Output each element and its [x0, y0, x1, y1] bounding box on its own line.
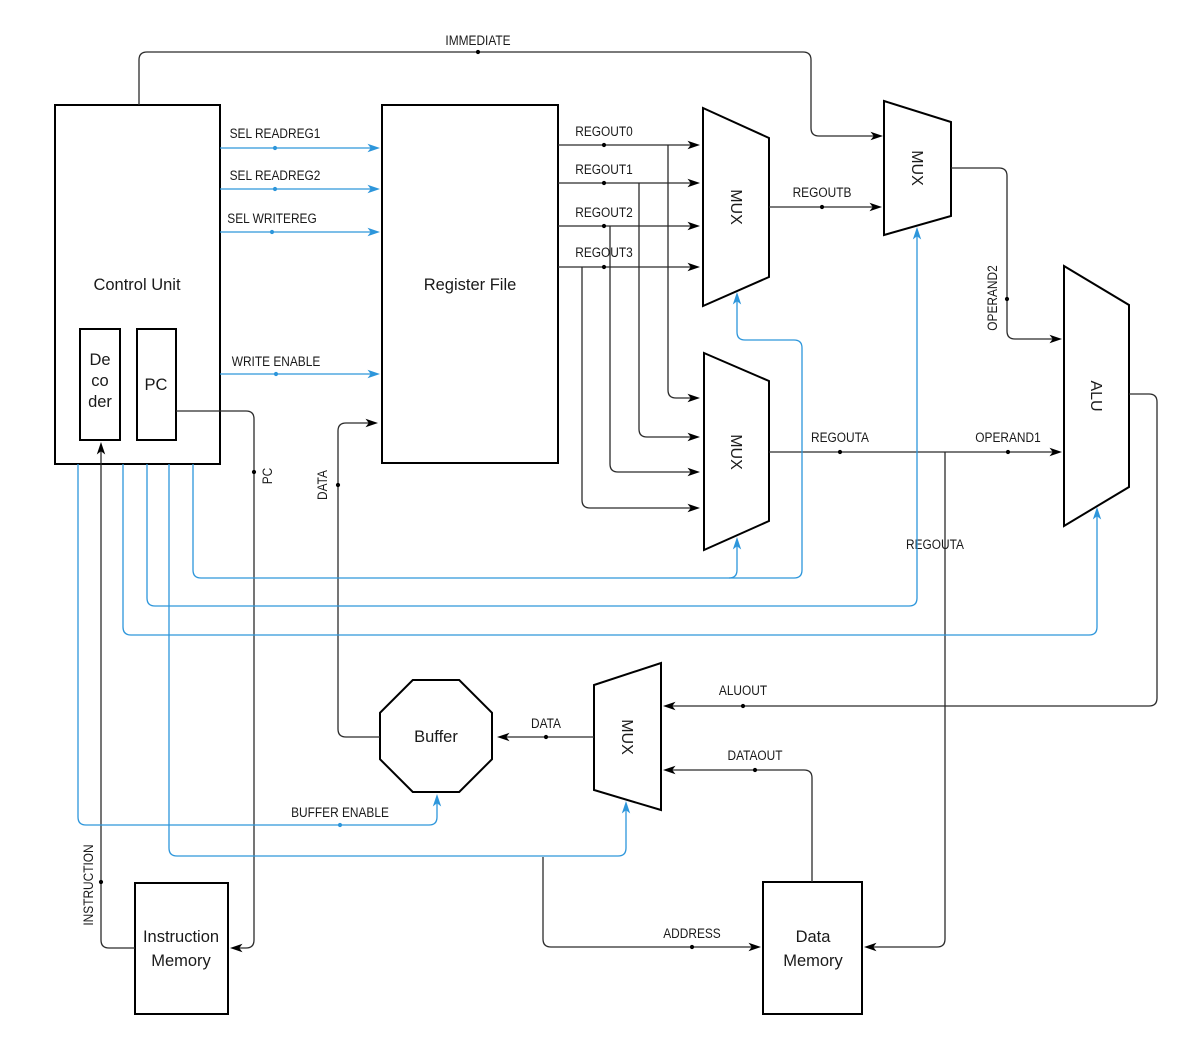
label IMMEDIATE — [445, 32, 510, 54]
wire DATA: buffer to register file write port — [338, 419, 380, 737]
svg-text:Data: Data — [796, 928, 832, 946]
decoder — [80, 329, 120, 440]
mux M4 (writeback select, mirrored) — [594, 663, 661, 810]
wire mux M2 select (blue): control unit to mux M2 — [147, 227, 921, 606]
wire DATA: mux M4 output to buffer — [497, 733, 594, 741]
register file — [382, 105, 558, 463]
svg-text:Buffer: Buffer — [414, 728, 458, 746]
svg-text:ALU: ALU — [1087, 380, 1104, 411]
svg-text:MUX: MUX — [727, 434, 744, 470]
label INSTRUCTION — [80, 844, 103, 925]
wire PC: PC register to instruction memory — [176, 411, 254, 952]
ALU — [1064, 266, 1129, 526]
svg-text:REGOUTA: REGOUTA — [811, 429, 869, 445]
svg-text:REGOUTA: REGOUTA — [906, 536, 964, 552]
wire REGOUT0: register file to mux M1 input 1 — [558, 141, 700, 149]
wire REGOUT3 branch to mux M3 input 4 — [582, 267, 700, 512]
svg-text:co: co — [91, 372, 108, 390]
wire REGOUTB: mux M1 output to mux M2 input 2 — [769, 203, 882, 211]
svg-text:REGOUT0: REGOUT0 — [575, 123, 633, 139]
label REGOUTA (lower) — [906, 536, 964, 552]
wire mux M1/M3 select (blue): control unit to mux M1 and mux M3 — [193, 292, 802, 578]
wire SEL WRITEREG (blue) — [220, 228, 380, 236]
buffer (octagon) — [380, 680, 492, 792]
label ADDRESS — [663, 925, 721, 949]
label OPERAND2 — [984, 265, 1009, 330]
wire REGOUT3: register file to mux M1 input 4 — [558, 263, 700, 271]
svg-text:der: der — [88, 393, 112, 411]
svg-text:DATA: DATA — [531, 715, 561, 731]
label BUFFER ENABLE — [291, 804, 389, 827]
label REGOUT1 — [575, 161, 633, 185]
svg-text:ALUOUT: ALUOUT — [719, 682, 767, 698]
wire DATAOUT: data memory to mux M4 input 2 — [663, 766, 812, 882]
svg-text:BUFFER ENABLE: BUFFER ENABLE — [291, 804, 389, 820]
wire REGOUT2 branch to mux M3 input 3 — [610, 226, 700, 476]
label REGOUTB — [793, 184, 852, 209]
svg-text:OPERAND2: OPERAND2 — [984, 265, 1000, 330]
svg-text:WRITE ENABLE: WRITE ENABLE — [232, 353, 321, 369]
svg-text:MUX: MUX — [618, 719, 635, 755]
label SEL READREG1 — [230, 125, 321, 150]
svg-text:IMMEDIATE: IMMEDIATE — [445, 32, 510, 48]
svg-text:MUX: MUX — [727, 189, 744, 225]
svg-text:DATAOUT: DATAOUT — [727, 747, 782, 763]
label REGOUT2 — [575, 204, 633, 228]
svg-text:Memory: Memory — [783, 952, 843, 970]
wire mux M4 select (blue): control unit to mux M4 — [169, 464, 630, 856]
wire REGOUTA branch to data memory data input — [864, 452, 945, 951]
svg-text:MUX: MUX — [908, 150, 925, 186]
wire ADDRESS: to data memory address input — [543, 857, 761, 951]
wire REGOUT2: register file to mux M1 input 3 — [558, 222, 700, 230]
label REGOUT0 — [575, 123, 633, 147]
label DATA (mux to buffer) — [531, 715, 561, 739]
wire ALUOUT: ALU output to mux M4 input 1 — [663, 394, 1157, 710]
wire mux M3 select branch (blue) — [729, 537, 741, 578]
svg-text:Instruction: Instruction — [143, 928, 219, 946]
svg-text:Control Unit: Control Unit — [93, 276, 181, 294]
mux M1 (regoutB select) — [703, 108, 769, 306]
wire IMMEDIATE: control unit top to mux M2 input 1 — [139, 52, 883, 140]
label DATA (buffer to register file) — [314, 470, 340, 500]
wire ALU select (blue): control unit to ALU — [123, 464, 1101, 635]
svg-text:SEL WRITEREG: SEL WRITEREG — [227, 210, 316, 226]
label WRITE ENABLE — [232, 353, 321, 376]
wire BUFFER ENABLE (blue): control unit to buffer — [78, 464, 441, 825]
svg-text:INSTRUCTION: INSTRUCTION — [80, 844, 96, 925]
wire WRITE ENABLE (blue) — [220, 370, 380, 378]
label ALUOUT — [719, 682, 767, 708]
svg-text:ADDRESS: ADDRESS — [663, 925, 721, 941]
data memory — [763, 882, 862, 1014]
wire OPERAND2: mux M2 output to ALU input 1 — [951, 168, 1062, 343]
svg-text:SEL READREG1: SEL READREG1 — [230, 125, 321, 141]
svg-text:Memory: Memory — [151, 952, 211, 970]
wire REGOUT1 branch to mux M3 input 2 — [639, 183, 700, 441]
svg-text:REGOUTB: REGOUTB — [793, 184, 852, 200]
label REGOUT3 — [575, 244, 633, 269]
wire INSTRUCTION: instruction memory to decoder — [97, 442, 135, 948]
svg-text:REGOUT1: REGOUT1 — [575, 161, 633, 177]
svg-text:DATA: DATA — [314, 470, 330, 500]
label DATAOUT — [727, 747, 782, 772]
label REGOUTA — [811, 429, 869, 454]
wire SEL READREG1 (blue) — [220, 144, 380, 152]
svg-text:De: De — [89, 351, 110, 369]
svg-text:OPERAND1: OPERAND1 — [975, 429, 1040, 445]
wire REGOUT0 branch to mux M3 input 1 — [668, 145, 700, 402]
label SEL WRITEREG — [227, 210, 316, 234]
label OPERAND1 — [975, 429, 1040, 454]
svg-text:PC: PC — [259, 468, 275, 485]
label PC (wire) — [252, 468, 275, 485]
svg-text:REGOUT3: REGOUT3 — [575, 244, 633, 260]
control unit — [55, 105, 220, 464]
svg-text:SEL READREG2: SEL READREG2 — [230, 167, 321, 183]
label SEL READREG2 — [230, 167, 321, 191]
instruction memory — [135, 883, 228, 1014]
mux M3 (regoutA select) — [704, 353, 769, 550]
wire REGOUTA / OPERAND1: mux M3 output to ALU input 2 — [769, 448, 1062, 456]
wire REGOUT1: register file to mux M1 input 2 — [558, 179, 700, 187]
PC register — [137, 329, 176, 440]
wire SEL READREG2 (blue) — [220, 185, 380, 193]
svg-text:REGOUT2: REGOUT2 — [575, 204, 633, 220]
svg-text:Register File: Register File — [424, 276, 517, 294]
mux M2 (operand2 select) — [884, 101, 951, 235]
svg-text:PC: PC — [145, 376, 168, 394]
